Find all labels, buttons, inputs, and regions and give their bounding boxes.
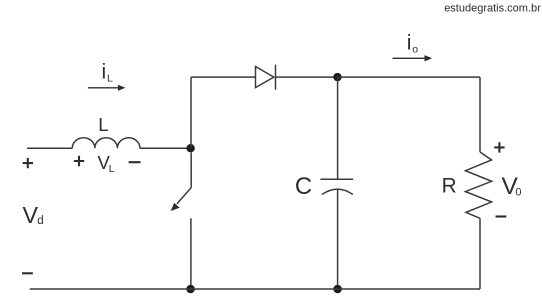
minus v_L xyxy=(129,161,141,163)
wire node B to right corner xyxy=(338,76,481,78)
inductor L xyxy=(72,138,140,148)
wire diode to node B xyxy=(276,76,338,78)
svg-text:d: d xyxy=(37,215,43,227)
switch SW diagonal arm with arrow xyxy=(177,188,191,204)
node D switch bottom xyxy=(186,285,195,294)
svg-text:L: L xyxy=(109,163,115,175)
wire resistor down to bottom rail xyxy=(479,218,481,289)
svg-text:estudegratis.com.br: estudegratis.com.br xyxy=(444,2,541,14)
switch SW vertical arm xyxy=(190,152,192,187)
minus V_o xyxy=(496,215,507,217)
plus V_o xyxy=(494,142,504,152)
wire top to diode xyxy=(191,76,256,78)
svg-text:i: i xyxy=(102,61,107,84)
arrow i_o xyxy=(393,57,426,59)
node B xyxy=(333,73,341,81)
resistor R zigzag xyxy=(465,152,491,218)
wire input left to inductor xyxy=(27,147,72,149)
svg-text:L: L xyxy=(98,114,108,135)
switch SW bottom contact xyxy=(190,218,192,289)
capacitor C top plate xyxy=(320,178,353,180)
minus input xyxy=(22,272,33,274)
wire inductor to node A xyxy=(140,147,191,149)
bottom rail wire xyxy=(30,288,480,290)
wire capacitor to bottom rail xyxy=(337,189,339,289)
diode D1 cathode bar xyxy=(275,65,277,90)
plus input xyxy=(23,158,33,168)
wire node B down to capacitor xyxy=(337,77,339,179)
svg-text:C: C xyxy=(295,173,312,200)
diode D1 triangle xyxy=(256,67,274,88)
node C capacitor bottom xyxy=(333,285,342,294)
wire node A up xyxy=(190,77,192,148)
wire right corner down to resistor xyxy=(479,77,481,152)
svg-text:L: L xyxy=(107,73,113,85)
node A xyxy=(186,144,194,152)
svg-text:i: i xyxy=(407,31,412,54)
capacitor C curved bottom plate xyxy=(322,189,353,194)
svg-text:0: 0 xyxy=(515,187,521,199)
arrow i_L xyxy=(88,87,119,89)
svg-text:V: V xyxy=(23,202,39,228)
svg-text:o: o xyxy=(412,43,418,55)
svg-text:R: R xyxy=(442,175,457,198)
plus v_L xyxy=(74,156,84,166)
